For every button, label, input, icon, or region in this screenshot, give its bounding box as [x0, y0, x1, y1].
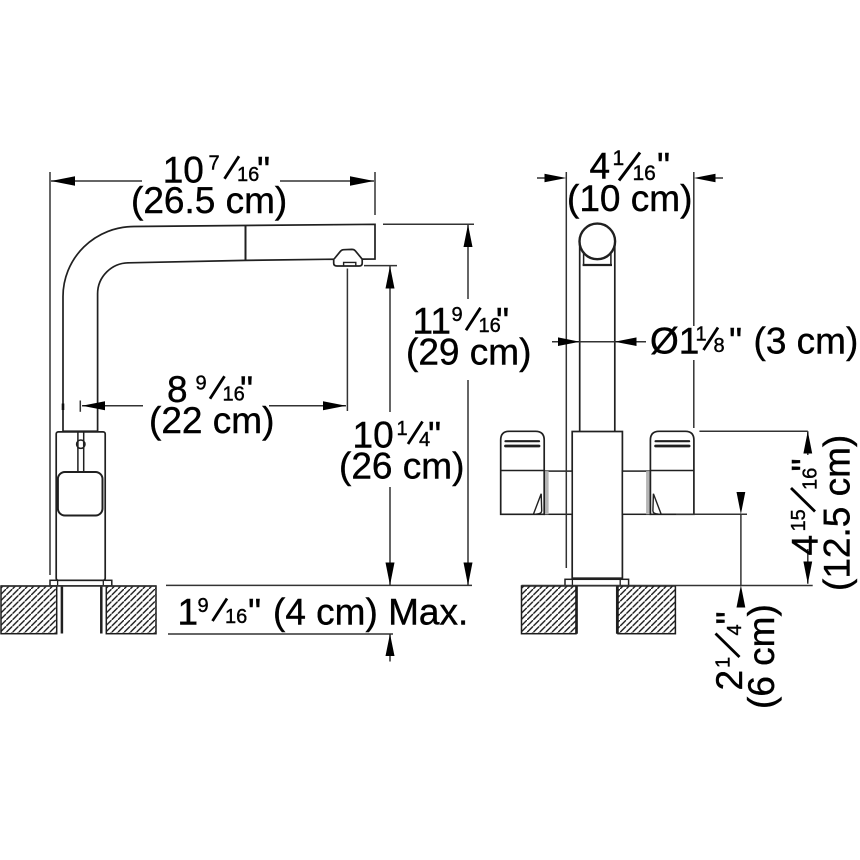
left handle connector [544, 471, 572, 514]
collar under ball [584, 251, 611, 264]
label 4 15/16 inch 12.5 cm (rotated) [785, 435, 858, 591]
left handle [501, 431, 545, 514]
faucet front view: riser pipe [580, 239, 615, 431]
countertop section right block front view (hatched) [618, 586, 675, 634]
svg-text:1: 1 [613, 147, 625, 170]
arrowhead dia right [615, 337, 637, 346]
dimension line 4 15/16in vertical [807, 431, 809, 584]
dimension line 4 1/16in tails [537, 177, 723, 179]
svg-text:1: 1 [178, 592, 199, 633]
arrowhead 10 7/16in left [51, 176, 75, 185]
faucet body (side view) [56, 432, 105, 580]
countertop section left block (hatched) [1, 586, 57, 634]
extension line left of spout [49, 172, 51, 575]
dimension line 11 9/16in vertical [467, 225, 469, 586]
countertop section right block (hatched) [106, 586, 156, 634]
tail below 4 cm arrow [389, 634, 391, 662]
extension line spout outlet level [364, 265, 397, 267]
arrowhead 10 1/4in bottom [386, 563, 395, 586]
extension line handle bottom level [676, 513, 747, 515]
svg-text:(4 cm) Max.: (4 cm) Max. [273, 592, 468, 633]
arrowhead 10 7/16in right [350, 176, 374, 185]
extension line right of spout [374, 172, 376, 215]
extension line left of front view [565, 172, 567, 568]
mounting shank (side view) [62, 586, 101, 634]
dimension line 10 7/16in [51, 180, 374, 182]
lever stem [78, 432, 84, 472]
extension line spout top level [383, 223, 474, 225]
faucet side view: L-shaped spout outline [63, 224, 375, 431]
svg-text:(29 cm): (29 cm) [406, 332, 531, 373]
arrowhead 4 15/16in top [803, 431, 812, 453]
dimension line dia 1 1/8in [552, 341, 646, 343]
countertop top surface line left figure [1, 585, 156, 587]
svg-text:(10 cm): (10 cm) [567, 178, 692, 219]
countertop top line (max thickness note) [166, 584, 472, 586]
svg-text:16: 16 [225, 606, 247, 628]
svg-text:(22 cm): (22 cm) [149, 400, 274, 441]
lever hinge [77, 440, 85, 448]
spout ball end (front view) [580, 224, 616, 260]
extension line right of front view [693, 172, 695, 428]
svg-text:9: 9 [196, 373, 207, 395]
print artifact dash on tube edge [62, 404, 65, 411]
arrowhead 2 1/4in top [737, 492, 746, 514]
svg-text:": " [248, 592, 261, 633]
right handle connector [622, 471, 650, 514]
pull-out spray head seam [245, 226, 247, 260]
right handle grip slots [656, 440, 690, 442]
svg-text:(26.5 cm): (26.5 cm) [131, 180, 287, 221]
countertop bottom line (max thickness note) [168, 633, 393, 635]
countertop top surface line front figure [522, 585, 813, 587]
svg-text:1: 1 [397, 418, 408, 440]
left handle notch [533, 494, 541, 515]
svg-text:9: 9 [198, 595, 209, 617]
svg-text:(3 cm): (3 cm) [754, 320, 859, 361]
svg-text:1: 1 [696, 324, 707, 346]
arrowhead 4 1/16in right [694, 174, 716, 183]
base flange (side view) [50, 580, 112, 586]
countertop section left block front view (hatched) [522, 586, 577, 634]
dimension line 10 1/4in vertical [389, 266, 391, 585]
arrowhead 10 1/4in top [386, 266, 395, 289]
svg-text:(12.5 cm): (12.5 cm) [817, 435, 858, 591]
svg-text:15: 15 [788, 509, 810, 531]
right handle [650, 431, 694, 514]
svg-text:9: 9 [452, 304, 463, 326]
aerator notch [344, 262, 356, 265]
arrowhead 4 cm max up [386, 634, 395, 656]
arrowhead 8 9/16in right [323, 401, 346, 410]
svg-text:(26 cm): (26 cm) [339, 446, 464, 487]
svg-text:8: 8 [714, 335, 725, 357]
right handle notch [653, 494, 661, 515]
arrowhead 4 1/16in left [545, 174, 567, 183]
extension tick at body centerline [79, 401, 81, 412]
arrowhead dia left [558, 337, 580, 346]
svg-text:(6 cm): (6 cm) [741, 604, 782, 709]
mounting shank (front view) [577, 586, 618, 634]
dimension line 8 9/16in [82, 405, 346, 407]
arrowhead 2 1/4in bottom [737, 585, 746, 607]
arrowhead 4 15/16in bottom [803, 562, 812, 584]
extension line handle top level [699, 430, 807, 432]
svg-text:1: 1 [713, 657, 735, 668]
left handle grip slots [506, 440, 540, 442]
aerator dome on spout underside [334, 249, 362, 259]
svg-text:Ø1: Ø1 [650, 320, 699, 361]
lever knob [58, 472, 103, 516]
dimension line 2 1/4in vertical [740, 514, 742, 585]
arrowhead 8 9/16in left [82, 401, 105, 410]
faucet body (front view) [572, 432, 622, 579]
label 2 1/4 inch 6 cm (rotated) [709, 604, 782, 709]
extension line aerator centerline [346, 269, 348, 412]
svg-text:": " [729, 320, 742, 361]
arrowhead 11 9/16in top [464, 225, 473, 248]
svg-text:7: 7 [209, 153, 220, 175]
base flange (front view) [565, 579, 629, 586]
arrowhead 11 9/16in bottom [464, 563, 473, 586]
